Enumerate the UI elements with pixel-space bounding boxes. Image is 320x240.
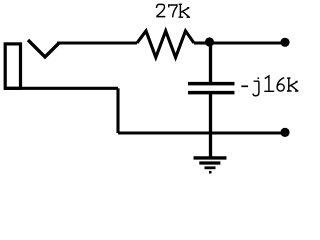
jack tip contact [28,40,59,57]
wire junction down to capacitor [209,43,212,84]
wire to ground [209,133,212,158]
label -j16k [241,76,298,96]
wire junction to top terminal [210,41,286,44]
node junction [205,37,214,46]
wire step down [116,88,119,133]
wire top (tip to resistor) [57,41,137,44]
wire bottom horizontal [118,131,285,134]
wire resistor to junction [194,41,210,44]
label 27k [156,4,190,17]
ground [194,158,227,172]
terminal top [280,38,289,47]
resistor R1 27k [137,31,194,58]
wire capacitor to bottom wire [209,93,212,133]
wire jack sleeve bottom [4,87,118,90]
capacitor C1 bottom plate [188,91,235,95]
capacitor C1 top plate [188,82,235,86]
jack J1 body [5,44,20,88]
terminal bottom [280,128,289,137]
